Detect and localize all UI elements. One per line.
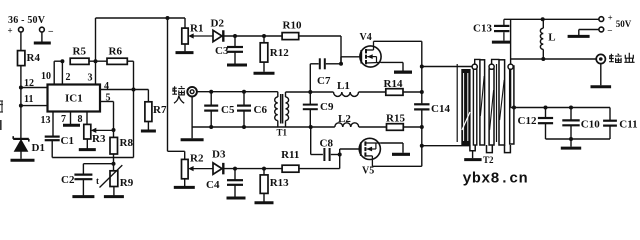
svg-text:R2: R2 xyxy=(190,153,204,165)
wire D3 to node xyxy=(224,168,282,170)
svg-text:3: 3 xyxy=(88,73,93,84)
node L top xyxy=(541,17,545,21)
svg-text:C10: C10 xyxy=(581,119,600,131)
ground (C4) xyxy=(227,197,246,200)
svg-text:R3: R3 xyxy=(92,133,106,145)
wire T1 to L2 xyxy=(311,126,335,128)
node T2 tap xyxy=(512,106,516,110)
diode D3 xyxy=(213,163,222,175)
output connector ground xyxy=(600,63,602,85)
node L bottom xyxy=(541,57,545,61)
thermistor R9 xyxy=(113,164,115,171)
wire pin3 stub xyxy=(95,61,97,84)
wire T1 to L1 xyxy=(310,91,333,93)
zener diode D1 xyxy=(15,140,28,151)
T2 bottom link 2 xyxy=(487,145,493,153)
ground (C13) xyxy=(492,41,511,44)
svg-text:R6: R6 xyxy=(109,46,123,58)
capacitor C5 xyxy=(210,92,212,105)
svg-text:R12: R12 xyxy=(270,47,289,59)
capacitor C6 xyxy=(243,92,245,105)
wire bus to T2 bottom xyxy=(422,145,470,147)
label shu (output char 1) xyxy=(609,54,622,63)
ground (R1) xyxy=(176,51,194,54)
diode D2 xyxy=(213,30,222,42)
capacitor C14 xyxy=(414,103,429,105)
capacitor C4 xyxy=(234,169,236,180)
output bus wire upper xyxy=(421,41,423,103)
wire L1 to R14 xyxy=(359,91,386,93)
wire + terminal down to R4 xyxy=(20,32,22,51)
C1 capacitor xyxy=(45,136,60,138)
svg-text:T2: T2 xyxy=(483,155,494,165)
capacitor C7 xyxy=(319,58,321,69)
svg-text:V5: V5 xyxy=(362,166,374,177)
node C6 top xyxy=(242,90,246,94)
pin 8 stub to R3 xyxy=(86,112,88,125)
node pin5/R3/R8 xyxy=(112,128,116,132)
svg-text:C3: C3 xyxy=(215,45,229,57)
inductor L2 xyxy=(335,123,359,127)
svg-text:L1: L1 xyxy=(337,80,350,92)
ground (C3) xyxy=(227,64,247,67)
transformer T2 windings xyxy=(457,60,514,145)
bottom rail (input side) xyxy=(192,126,311,128)
node (pin11 tap) xyxy=(19,104,23,108)
T2 terminal circle 2 xyxy=(489,64,494,69)
input connector to ground xyxy=(191,96,193,127)
ground (input) xyxy=(181,138,204,141)
node C10 xyxy=(569,106,573,110)
node R12 tap xyxy=(262,34,266,38)
svg-text:R13: R13 xyxy=(270,177,289,189)
capacitor C11 xyxy=(609,108,611,121)
ground (R7) xyxy=(141,130,156,133)
label chu (output char 2) xyxy=(624,53,634,63)
pin 5 wire xyxy=(100,101,114,103)
svg-text:4: 4 xyxy=(104,81,109,92)
V5 gate wire xyxy=(340,148,361,150)
wire L2 to R15 xyxy=(359,126,387,128)
+50V rail xyxy=(504,18,599,20)
node C10 bottom xyxy=(569,137,573,141)
svg-text:R7: R7 xyxy=(153,104,167,116)
svg-text:R1: R1 xyxy=(190,23,203,35)
node C7/gate xyxy=(339,62,343,66)
svg-text:2: 2 xyxy=(66,72,71,83)
wire bus up to C7 xyxy=(309,64,311,92)
svg-text:ybx8.cn: ybx8.cn xyxy=(463,170,528,187)
resistor R14 xyxy=(386,89,403,96)
filter rail top xyxy=(511,107,610,109)
ground (pins 7-8) xyxy=(63,124,80,127)
wire D1 to ground xyxy=(20,151,22,159)
resistor R6 xyxy=(107,58,127,64)
ground (-50V) xyxy=(568,35,590,38)
filter rail bottom xyxy=(546,138,611,140)
wire to R10 xyxy=(264,35,282,37)
rail down to T2/output xyxy=(510,19,512,64)
resistor R13 xyxy=(263,169,265,175)
svg-text:11: 11 xyxy=(24,94,33,105)
svg-text:t: t xyxy=(96,176,99,186)
svg-text:13: 13 xyxy=(41,115,51,126)
capacitor C2 xyxy=(74,174,92,176)
ground (output) xyxy=(591,85,612,88)
node top rail branch xyxy=(166,16,170,20)
T1 core xyxy=(280,94,282,124)
V4 gate wire xyxy=(340,57,342,64)
wire R14 to bus xyxy=(403,91,422,93)
output connector xyxy=(596,54,605,63)
resistor R7 xyxy=(147,90,149,102)
resistor R12 xyxy=(263,36,265,43)
top rail wire xyxy=(96,17,186,19)
wire R10 to V4 gate branch xyxy=(299,35,341,37)
op-amp IC1 (driver IC) xyxy=(48,85,101,112)
resistor R1 (trimmer) xyxy=(182,28,188,44)
svg-text:R10: R10 xyxy=(283,20,302,32)
terminal - (negative input) xyxy=(40,27,45,32)
svg-text:R5: R5 xyxy=(73,46,87,58)
resistor R3 (trimmer) xyxy=(84,124,91,139)
resistor R5 xyxy=(70,58,89,64)
svg-text:D1: D1 xyxy=(32,142,45,154)
wire T2 right down to filter rail xyxy=(510,69,512,108)
transformer T1 secondary xyxy=(285,92,287,97)
node C4 tap xyxy=(233,167,237,171)
svg-text:R9: R9 xyxy=(120,177,134,189)
ground (R9) xyxy=(104,195,124,198)
T2 ground stem xyxy=(472,151,474,158)
node R5/R6 junction xyxy=(94,59,98,63)
svg-text:L: L xyxy=(548,32,555,44)
capacitor C8 xyxy=(323,148,325,161)
R8 bottom to node xyxy=(113,154,115,164)
node T2 bottom feed xyxy=(420,144,424,148)
svg-text:D3: D3 xyxy=(212,149,226,161)
output wire row xyxy=(511,58,597,60)
wire bus to T2 top xyxy=(422,66,473,68)
wire R11 to V5 gate branch xyxy=(299,168,340,170)
svg-text:C1: C1 xyxy=(61,135,74,147)
node (pin12 tap) xyxy=(19,86,23,90)
svg-text:C2: C2 xyxy=(61,174,75,186)
svg-text:C12: C12 xyxy=(518,115,537,127)
svg-text:C6: C6 xyxy=(254,104,268,116)
ground (T2) xyxy=(464,158,481,161)
svg-text:V4: V4 xyxy=(360,32,372,43)
T2 terminal circle 1 xyxy=(472,64,477,69)
wire node to node 11 xyxy=(20,88,22,106)
svg-text:D2: D2 xyxy=(211,18,225,30)
ground (R13) xyxy=(255,201,274,204)
node R13 tap xyxy=(262,167,266,171)
inductor L1 xyxy=(334,92,359,96)
svg-text:7: 7 xyxy=(61,114,66,125)
node C3 tap xyxy=(233,34,237,38)
input connector (RF in) xyxy=(187,87,197,97)
resistor R8 xyxy=(113,130,115,137)
svg-text:8: 8 xyxy=(78,114,83,125)
svg-text:C11: C11 xyxy=(619,119,637,131)
wire node to C2 xyxy=(83,163,113,165)
wire R15 to bus xyxy=(403,126,422,128)
node C9 bus top xyxy=(308,90,312,94)
T2 top link 2 xyxy=(492,59,500,64)
resistor R11 xyxy=(282,165,299,172)
wire D2 to node xyxy=(224,35,264,37)
wire T1 secondary top to bus xyxy=(286,91,311,93)
ground (C10) xyxy=(561,147,581,150)
rail wire (bottom of module) xyxy=(52,157,133,159)
terminal -50V xyxy=(599,27,604,32)
resistor R15 xyxy=(387,124,404,131)
svg-text:C7: C7 xyxy=(317,75,331,87)
svg-text:–: – xyxy=(607,25,613,35)
ground (C2) xyxy=(72,195,94,198)
capacitor C9 xyxy=(303,104,318,106)
node C8/gate xyxy=(338,153,342,157)
svg-text:IC1: IC1 xyxy=(65,93,83,105)
ground (V5 source) xyxy=(392,153,410,156)
wire node down to D1 xyxy=(20,106,22,139)
svg-text:C8: C8 xyxy=(320,138,334,150)
wire pin12 to IC1 xyxy=(21,87,48,89)
svg-text:–: – xyxy=(48,26,54,36)
node C5 top xyxy=(209,90,213,94)
node L1 row xyxy=(420,90,424,94)
label ru (input char 2) xyxy=(174,96,184,103)
terminal +50V xyxy=(599,17,604,22)
wire pin11 to IC1 xyxy=(21,105,48,107)
pin 4 wire xyxy=(100,89,148,91)
node T2 top feed xyxy=(420,65,424,69)
wire top rail to R5R6 node xyxy=(95,18,97,61)
wire -50V to ground xyxy=(579,29,599,31)
output bus wire lower xyxy=(421,110,423,166)
wire pin2 stub xyxy=(61,61,63,84)
pin 13 stub to C1 xyxy=(52,112,54,137)
capacitor C10 xyxy=(570,108,572,120)
svg-text:R15: R15 xyxy=(386,113,405,125)
svg-text:10: 10 xyxy=(41,71,51,82)
capacitor C12 xyxy=(545,108,547,118)
svg-text:12: 12 xyxy=(24,78,34,89)
ground (D1) xyxy=(11,159,35,162)
svg-text:C13: C13 xyxy=(473,23,492,35)
ground (R12) xyxy=(254,72,275,75)
svg-text:C9: C9 xyxy=(320,101,334,113)
capacitor C3 xyxy=(234,36,236,46)
svg-text:C5: C5 xyxy=(221,104,235,116)
svg-text:R11: R11 xyxy=(281,149,299,161)
svg-text:T1: T1 xyxy=(277,128,288,138)
ground (V4 source) xyxy=(394,70,412,73)
left edge artifact marks xyxy=(0,101,3,112)
resistor R10 xyxy=(282,33,299,40)
wire R6 right down xyxy=(127,60,133,62)
node L2 row xyxy=(420,125,424,129)
svg-text:L2: L2 xyxy=(338,113,351,125)
T2 terminal circle 3 xyxy=(508,64,513,69)
svg-text:R8: R8 xyxy=(120,137,134,149)
svg-text:C14: C14 xyxy=(431,103,450,115)
R3 to ground xyxy=(86,139,88,149)
wire bus down to C8 xyxy=(310,127,312,155)
wire rail to R1 xyxy=(184,18,186,28)
svg-text:R14: R14 xyxy=(384,78,403,90)
node C12 xyxy=(544,106,548,110)
resistor R2 (trimmer) xyxy=(182,159,189,178)
label shu (input char 1) xyxy=(172,86,185,95)
svg-text:36 - 50V: 36 - 50V xyxy=(8,15,46,26)
node C9 bus bottom xyxy=(309,125,313,129)
inductor L (choke) xyxy=(542,19,544,28)
wire R4 to node 12 xyxy=(20,66,22,88)
svg-text:+: + xyxy=(8,26,13,36)
T2 bottom link 3 xyxy=(505,145,511,153)
resistor R4 xyxy=(18,51,25,66)
svg-text:50V: 50V xyxy=(616,19,632,29)
wire - terminal to ground xyxy=(41,32,43,42)
node R5 left xyxy=(60,59,64,63)
T2 bottom link 1 xyxy=(470,145,475,151)
svg-text:R4: R4 xyxy=(27,52,41,64)
wire input to T1 row xyxy=(197,91,278,93)
svg-text:C4: C4 xyxy=(206,179,220,191)
wire C1 to rail xyxy=(51,140,53,157)
wire pin10 stub xyxy=(54,60,62,62)
node pin4/R6 xyxy=(132,88,136,92)
ground (R2) xyxy=(174,186,195,189)
T2 top link 1 xyxy=(475,59,481,64)
pin 7 stub xyxy=(70,112,72,125)
wire branch down to R2 xyxy=(167,18,169,151)
node R8/C2/R9 xyxy=(112,162,116,166)
svg-text:5: 5 xyxy=(106,93,111,104)
svg-text:+: + xyxy=(608,13,613,23)
transformer T1 primary xyxy=(277,92,279,97)
ground (negative terminal) xyxy=(34,42,51,45)
